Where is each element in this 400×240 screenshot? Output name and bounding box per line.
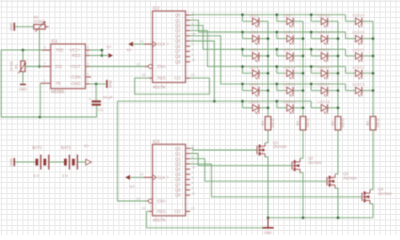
node junction VCC+/V+ [101,49,104,52]
counter IC3 body (4017N) [153,144,186,216]
wire R3 to Q1 drain [265,130,268,143]
label R1 name (rotated) [15,64,19,69]
svg-text:Q9: Q9 [175,59,181,64]
svg-text:2N7000: 2N7000 [343,175,357,180]
LED diode LED1 [243,12,269,27]
node junctions column 4 rail [372,37,375,91]
svg-text:LED12: LED12 [283,99,295,104]
svg-text:LED10: LED10 [283,64,296,69]
svg-text:-RES: -RES [71,53,81,58]
svg-text:ENA: ENA [157,199,166,204]
svg-text:CO: CO [174,209,180,214]
label BAT1 name [32,145,43,150]
svg-text:4017N: 4017N [153,218,166,223]
ground GND3 (right of IC1, rotated) [107,80,113,88]
svg-text:12: 12 [191,207,195,211]
wire R5 to Q3 drain [335,130,338,174]
wire IC2.Q4 to LED row 5 feed [190,36,345,84]
counter IC2 body (4017N) [153,11,186,83]
svg-text:13: 13 [136,63,140,67]
svg-text:LED13: LED13 [318,12,330,17]
LED diode LED19 [346,12,374,27]
trimmer resistor R1 body [21,61,25,72]
trimmer R2 wiper arrow [35,21,46,32]
svg-text:IC1: IC1 [51,38,58,43]
svg-text:GND: GND [9,22,13,30]
svg-text:VCC+: VCC+ [70,48,82,53]
LED diode LED4 [243,64,269,79]
wire bottom ground rail [268,217,373,219]
pin IC3.RES stub (pin 15) [142,207,153,212]
svg-text:15: 15 [142,73,146,77]
label C1 name [98,107,104,112]
pin name VCC+ [70,48,82,53]
svg-text:GND: GND [19,88,27,92]
wire C1 top lead [95,84,97,101]
svg-text:12: 12 [191,73,195,77]
pin IC2.RES stub (pin 15) [142,73,153,78]
label R6 name (rotated) [366,121,370,126]
svg-text:-GND: -GND [70,81,81,86]
supply V+ arrow (IC3 clock, points left) [125,175,135,189]
svg-text:14: 14 [140,173,144,177]
wire RES to V+ tie [90,55,102,57]
pin name RES (IC2) [157,76,166,81]
wire R6 to Q4 drain [370,130,373,190]
svg-text:+: + [167,42,170,47]
node junction TRE wire / R1 top [22,49,25,52]
svg-text:4017N: 4017N [153,84,166,89]
wire GND4 to BAT1 [15,161,36,163]
pin name CLK (IC3) with clock wedge [153,175,170,181]
label BAT2 name [61,145,72,150]
wire R1 wiper to DIS junction [25,66,42,68]
pin IC1.RES stub (pin 4) [85,51,89,56]
svg-text:LED3: LED3 [249,47,259,52]
wire IC2.Q1 to LED row 2 feed [190,20,345,32]
svg-text:CLK: CLK [157,175,165,180]
svg-text:5: 5 [87,72,89,76]
LED diode LED12 [277,99,303,114]
svg-text:5: 5 [192,176,194,180]
LED diode LED14 [311,30,338,45]
svg-text:100 Ω: 100 Ω [271,118,275,128]
svg-text:2N7000: 2N7000 [378,191,392,196]
svg-text:LED21: LED21 [352,47,364,52]
pin IC3.CLK stub (pin 14) [140,173,153,178]
label C1 value 10 uF [103,95,114,100]
wires feed-to-anode drops (all LED rows) [243,15,346,108]
LED diode LED13 [311,12,338,27]
svg-text:6: 6 [44,46,46,50]
wire IC3.Q1 to Q2 gate [190,154,291,166]
node junctions column 1 rail [267,37,270,109]
pin names Q0-Q9 (IC2) [175,13,181,65]
wire V+ tie vertical [101,50,103,55]
svg-text:C1: C1 [98,107,104,112]
svg-text:7: 7 [44,62,46,66]
pin name TR [55,81,61,86]
svg-text:-CON: -CON [70,75,81,80]
pin IC1.OUT stub (pin 3) [85,62,89,67]
svg-text:3: 3 [87,62,89,66]
ground GND5 (bottom) [262,228,273,235]
svg-text:LED6: LED6 [249,99,259,104]
label R2 name [34,15,40,20]
svg-text:IC2: IC2 [153,6,160,11]
svg-text:11: 11 [192,192,196,196]
op-amp/timer IC1 body (NE555) [51,44,86,89]
svg-text:RES: RES [157,209,166,214]
trimmer resistor R2 body [34,25,49,30]
LED diode LED16 [311,64,338,79]
svg-text:2N7000: 2N7000 [273,144,287,149]
pin IC1.VCC+ stub (pin 8) [85,46,89,51]
svg-text:V+: V+ [107,44,113,49]
label R5 name (rotated) [331,121,335,126]
svg-text:10 kΩ: 10 kΩ [34,19,45,24]
wire column 3 cathode rail [337,21,339,116]
node junction RES/V+ [101,54,104,57]
wire Q1 source to ground rail [265,157,268,218]
LED diode LED22 [346,64,374,79]
pins IC2.Q0-Q9 stubs with pin numbers [186,11,196,62]
label BAT2 value 3 V [62,173,68,178]
pin IC2.CO stub (pin 12) [186,73,195,78]
node junction Q5 feed / row6 wire [213,100,216,103]
svg-text:LED22: LED22 [352,64,364,69]
wire R1 bottom to GND2 [22,72,24,84]
LED diode LED15 [311,47,338,62]
LED diode LED17 [311,82,338,97]
pin name RES [71,53,81,58]
label Q1 value 2N7000 [273,144,287,149]
wire IC1.TR down to THR net [39,83,41,117]
pin IC2.ENA bubble (pin 13) [136,63,152,69]
svg-text:1: 1 [192,171,194,175]
svg-text:LED15: LED15 [318,47,330,52]
svg-text:BAT2: BAT2 [61,145,72,150]
pin name CO (IC2) [174,76,180,81]
svg-text:8: 8 [87,46,89,50]
svg-text:CO: CO [174,76,180,81]
label R6 value 100 Ohm (rotated) [376,118,380,128]
wire IC1.OUT to IC2.ENA [90,66,146,68]
LED diode LED21 [346,47,374,62]
svg-text:+: + [89,98,91,102]
svg-text:LED14: LED14 [318,30,331,35]
svg-text:LED7: LED7 [283,12,293,17]
svg-text:3 V: 3 V [62,173,68,178]
wire to V+ supply arrow [102,55,108,57]
svg-text:R4: R4 [296,121,300,126]
wire R2 wiper down to DIS node [38,30,40,67]
wire IC2.Q2 to LED row 3 feed [190,25,345,49]
ground GND1 (left of R2, rotated) [9,22,14,30]
svg-text:3 V: 3 V [33,173,39,178]
svg-text:LED8: LED8 [283,30,293,35]
LED diode LED7 [277,12,303,27]
capacitor C1 (polarized 10uF) [89,98,101,106]
transistor Q3 (2N7000) [327,174,335,188]
supply V+ arrow (IC2 clock, points left) [127,42,133,53]
label IC3 value 4017N [153,218,166,223]
svg-text:GND: GND [9,158,13,166]
pin IC2.CLK stub (pin 14) [140,39,153,44]
wire THR net: TRE pin left, down left edge, to TR/C1 bottom [1,50,96,117]
pin IC1.GND stub (pin 1) [85,79,89,84]
supply V+ arrow (battery output, open) [84,144,91,165]
wire IC3.Q3 to Q4 gate [190,164,361,197]
svg-text:ENA: ENA [157,64,166,69]
pin IC1.CON stub (pin 5, n.c.) [85,72,91,77]
label R4 name (rotated) [296,121,300,126]
node junctions column 3 rail [337,37,340,109]
svg-text:LED18: LED18 [318,99,330,104]
label R5 value 100 Ohm (rotated) [341,118,345,128]
svg-text:10 µF: 10 µF [103,95,114,100]
label Q4 name [378,187,384,192]
svg-text:LED11: LED11 [283,82,295,87]
svg-text:11: 11 [192,58,196,62]
pin name DIS [55,64,62,69]
label R4 value 100 Ohm (rotated) [306,118,310,128]
node junction TR vertical / bottom wire [39,116,42,119]
LED diode LED5 [243,82,269,97]
svg-text:V+: V+ [127,48,133,53]
svg-text:14: 14 [140,39,144,43]
svg-text:6: 6 [192,181,194,185]
wire column 4 cathode rail [372,21,374,116]
wire ground stub [267,218,269,228]
pin name CLK (IC2) with clock wedge [153,41,170,47]
wire IC3.RES to bottom ground [147,211,263,227]
LED diode LED23 [346,82,374,97]
wire column 1 cathode rail [267,21,269,116]
ground GND2 (below R1) [19,84,27,91]
svg-text:GND: GND [264,231,272,235]
svg-text:LED9: LED9 [283,47,293,52]
svg-text:LED5: LED5 [249,82,259,87]
LED diode LED20 [346,30,374,45]
pin IC1.DIS stub (pin 7) [42,62,51,67]
label Q2 name [308,155,313,160]
pin IC3.ENA bubble (pin 13) [136,197,152,203]
svg-text:LED1: LED1 [249,12,259,17]
label R3 name (rotated) [261,121,265,126]
svg-text:100 Ω: 100 Ω [306,118,310,128]
battery BAT2 [64,155,77,170]
label IC3 name [153,139,160,144]
wire IC3.Q0 to Q1 gate [190,148,256,150]
svg-text:R5: R5 [331,121,335,126]
LED diode LED18 [311,99,338,114]
label IC2 name [153,6,160,11]
label Q1 name [273,140,278,145]
pin name RES (IC3) [157,209,166,214]
svg-text:R1: R1 [15,64,19,69]
svg-text:+: + [167,175,170,180]
pin IC1.TRE stub (pin 6) [42,46,51,51]
svg-text:Q9: Q9 [175,193,181,198]
svg-text:1: 1 [87,79,89,83]
node junctions on ground rail [267,216,340,219]
LED diode LED9 [277,47,303,62]
wire IC2.Q5 to LED row 6 feed [190,41,311,101]
pin names Q0-Q9 (IC3) [175,146,181,198]
svg-text:2N7000: 2N7000 [308,160,322,165]
label Q3 name [343,171,348,176]
svg-text:RES: RES [157,76,166,81]
svg-text:LED19: LED19 [352,12,364,17]
svg-text:LED4: LED4 [249,64,260,69]
svg-text:TR: TR [55,81,61,86]
svg-text:13: 13 [136,197,140,201]
pin name TRE [55,48,63,53]
label R1 value 10 kOhm (rotated) [10,61,14,71]
svg-text:IC3: IC3 [153,139,160,144]
label IC1 value NE555 [51,89,65,94]
svg-text:TRE: TRE [55,48,63,53]
wire BAT2 to V+ arrow [78,161,86,163]
pin name CO (IC3) [174,209,180,214]
svg-text:15: 15 [142,207,146,211]
pin name CON [70,75,81,80]
wire IC2.Q3 to LED row 4 feed [190,31,345,67]
pin IC1.TR stub (pin 2) [40,79,50,84]
wire column 2 cathode rail [302,21,304,116]
LED diode LED2 [243,30,269,45]
label Q3 value 2N7000 [343,175,357,180]
wire VCC+ to V+ tie [90,49,102,51]
svg-text:LED17: LED17 [318,82,330,87]
ground GND4 (left of BAT1, rotated) [9,158,14,166]
wire Q3 source to ground rail [335,188,338,218]
svg-text:BAT1: BAT1 [32,145,43,150]
svg-text:100 Ω: 100 Ω [376,118,380,128]
label Q4 value 2N7000 [378,191,392,196]
transistor Q1 (2N7000) [257,143,265,157]
svg-text:2: 2 [44,79,46,83]
resistor R4 body (100 Ohm) [300,117,306,131]
pin IC3.CO stub (pin 12) [186,207,195,212]
wire R4 to Q2 drain [300,130,303,158]
wire Q4 source to ground rail [370,204,373,218]
svg-text:4: 4 [87,51,89,55]
wire IC2.CLK to V+ arrow [133,43,144,45]
svg-text:LED20: LED20 [352,30,365,35]
svg-text:9: 9 [192,53,194,57]
svg-text:+OUT: +OUT [70,64,82,69]
node junction GND pin / C1 top [95,83,98,86]
label R3 value 100 Ohm (rotated) [271,118,275,128]
wire row 6 feed to IC3.ENA (long L) [117,101,214,201]
label BAT1 value 3 V [33,173,39,178]
wire Q2 source to ground rail [300,173,303,218]
svg-text:R3: R3 [261,121,265,126]
svg-text:V+: V+ [130,184,136,189]
wire BAT1 to BAT2 [49,161,64,163]
wire IC1.GND to GND3 [90,83,106,85]
pin name GND [70,81,81,86]
node junction R2-wiper / R1-wiper / DIS [38,65,41,68]
wire R1 top lead [22,50,24,61]
transistor Q4 (2N7000) [362,190,370,204]
resistor R6 body (100 Ohm) [370,117,376,131]
pin name OUT [70,64,82,69]
wire IC3.Q2 to Q3 gate [190,159,326,182]
svg-text:CLK: CLK [157,42,165,47]
svg-text:LED2: LED2 [249,30,259,35]
svg-text:10: 10 [192,166,196,170]
LED diode LED10 [277,64,303,79]
svg-text:LED16: LED16 [318,64,330,69]
battery BAT1 [35,155,48,170]
LED diode LED6 [243,99,269,114]
wire GND1 to R2 left pin [15,26,34,28]
svg-text:NE555: NE555 [51,89,65,94]
svg-text:GND: GND [109,80,113,88]
svg-text:5: 5 [192,43,194,47]
label R2 value 10 kOhm [34,19,45,24]
svg-text:LED23: LED23 [352,82,364,87]
pin name ENA (IC3) [157,199,166,204]
svg-text:R6: R6 [366,121,370,126]
svg-text:V+: V+ [84,144,90,149]
transistor Q2 (2N7000) [292,159,300,173]
label Q2 value 2N7000 [308,160,322,165]
label IC1 name [51,38,58,43]
trimmer R1 wiper arrow [18,63,26,74]
svg-text:DIS: DIS [55,64,62,69]
svg-text:100 Ω: 100 Ω [341,118,345,128]
LED diode LED11 [277,82,303,97]
resistor R5 body (100 Ohm) [335,117,341,131]
label IC2 value 4017N [153,84,166,89]
wire IC2.RES to IC2.CO (reset loop under IC2) [135,78,210,94]
LED diode LED3 [243,47,269,62]
svg-text:6: 6 [192,48,194,52]
node junctions on row feed wires [241,13,312,102]
svg-text:9: 9 [192,186,194,190]
wire IC2.Q0 to LED row 1 feed [190,14,345,16]
wire IC3.CLK to V+ arrow [130,176,144,178]
LED diode LED8 [277,30,303,45]
resistor R3 body (100 Ohm) [265,117,271,131]
pin name ENA (IC2) [157,64,166,69]
svg-text:10 kΩ: 10 kΩ [10,61,14,71]
supply V+ arrow (near IC1) [107,44,114,58]
node junctions column 2 rail [302,37,305,109]
pins IC3.Q0-Q9 stubs with pin numbers [186,145,196,196]
